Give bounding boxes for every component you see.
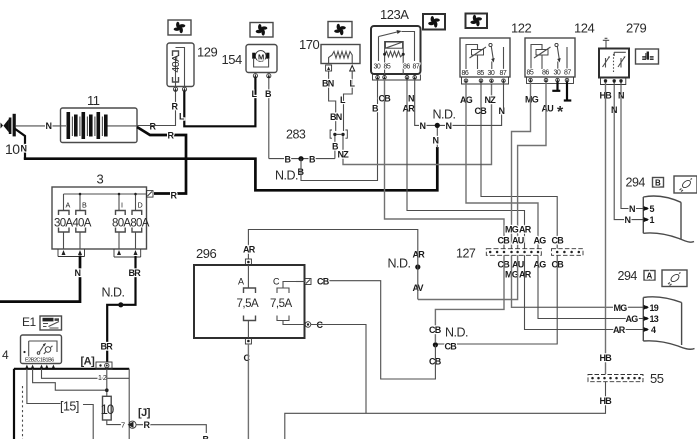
svg-text:N.D.: N.D. xyxy=(445,326,468,340)
svg-text:N: N xyxy=(408,94,414,104)
svg-text:86: 86 xyxy=(462,70,469,77)
svg-text:N: N xyxy=(629,204,635,214)
wire AG below 127 to 294A pin13 xyxy=(538,255,644,318)
wire N from 123A to N splice xyxy=(415,79,502,125)
ground under 124 pin87 xyxy=(564,82,572,101)
fan resistor 170 xyxy=(321,45,360,64)
svg-text:30: 30 xyxy=(374,64,381,71)
wire R from 129 to battery xyxy=(137,92,176,126)
svg-text:7,5A: 7,5A xyxy=(270,298,292,310)
connector strip 123A xyxy=(373,75,421,81)
electric fan 129 (fuse 40A) xyxy=(167,43,194,87)
svg-text:MG: MG xyxy=(614,303,628,313)
svg-text:296: 296 xyxy=(196,246,216,261)
connector pins below box 3 group 1 xyxy=(58,249,85,257)
svg-text:127: 127 xyxy=(456,247,476,261)
svg-text:30: 30 xyxy=(554,70,561,77)
svg-text:85: 85 xyxy=(477,70,484,77)
svg-text:[J]: [J] xyxy=(138,407,151,419)
svg-text:A: A xyxy=(238,277,244,287)
svg-text:123A: 123A xyxy=(380,7,409,22)
pin AR (296 top) xyxy=(245,259,251,265)
svg-text:HB: HB xyxy=(600,396,613,406)
svg-text:87: 87 xyxy=(413,64,420,71)
pins of 129 xyxy=(173,87,186,91)
fuse 80A a xyxy=(116,211,126,233)
control unit box edge right xyxy=(128,369,130,439)
svg-text:30: 30 xyxy=(488,70,495,77)
wire connector A to fuse 10 xyxy=(106,369,108,396)
svg-text:N.D.: N.D. xyxy=(102,286,125,300)
svg-text:87: 87 xyxy=(500,70,507,77)
pin 1 (294B) xyxy=(644,217,650,222)
wire HB from 279 to 55 xyxy=(605,83,607,375)
ground 10 xyxy=(1,114,16,137)
relay 123A xyxy=(371,26,421,75)
svg-text:N: N xyxy=(46,121,52,131)
svg-text:CB: CB xyxy=(552,260,565,270)
relay 124 xyxy=(525,38,575,77)
fuse 10 xyxy=(103,396,112,420)
splice N.D. (N) xyxy=(435,123,440,128)
fuse 30A xyxy=(59,211,70,233)
svg-text:10: 10 xyxy=(5,141,20,157)
svg-text:129: 129 xyxy=(197,45,217,60)
wire AR below 127 to 294A pin4 xyxy=(525,255,644,329)
svg-text:BN: BN xyxy=(322,79,334,89)
connector A xyxy=(96,362,112,369)
svg-text:AR: AR xyxy=(413,250,426,260)
svg-text:10: 10 xyxy=(100,402,113,417)
wire R from J xyxy=(136,425,206,433)
fuse C (296) xyxy=(277,282,305,325)
connector strip 127 right xyxy=(552,249,584,256)
svg-text:279: 279 xyxy=(626,21,646,36)
fuse A (296) xyxy=(244,265,256,338)
wire from 15 down xyxy=(83,405,93,439)
battery 11 xyxy=(61,108,138,143)
svg-text:CB: CB xyxy=(429,325,442,335)
splice N.D. (B) xyxy=(298,156,303,161)
connector strip 279 xyxy=(601,78,626,85)
pins of 170 xyxy=(326,65,355,71)
svg-text:283: 283 xyxy=(286,128,306,142)
svg-text:B: B xyxy=(655,179,661,188)
svg-text:AG: AG xyxy=(534,260,547,270)
fuse box 296 xyxy=(194,265,305,338)
svg-text:AU: AU xyxy=(512,236,524,246)
battery R feed thick wire to fusebox 3 xyxy=(137,127,186,194)
svg-text:A: A xyxy=(66,201,71,210)
svg-text:M: M xyxy=(258,52,264,61)
fan icon box (154) xyxy=(250,23,273,38)
svg-text:AR: AR xyxy=(519,270,532,280)
svg-text:MG: MG xyxy=(505,225,519,235)
wire AR splice to 296 xyxy=(248,230,417,300)
wire N from 279 to 294B pin5 xyxy=(621,83,644,209)
svg-text:30A40A: 30A40A xyxy=(54,218,92,230)
wire N from box3 (thick) xyxy=(0,256,80,302)
icon box (279 pressure icon) xyxy=(636,49,659,64)
svg-text:170: 170 xyxy=(299,37,319,52)
svg-text:[15]: [15] xyxy=(60,400,79,414)
svg-text:124: 124 xyxy=(574,21,594,36)
fan icon box (129) xyxy=(168,20,191,35)
wire pin3 to right edge xyxy=(42,369,130,379)
svg-text:154: 154 xyxy=(222,52,242,67)
connector strip 55 xyxy=(588,375,643,382)
wire CB from 123A to 127 xyxy=(385,79,505,249)
svg-text:CB: CB xyxy=(498,236,511,246)
wire AU from 124 to 127 xyxy=(518,83,546,249)
wire AG from 122 to 127 xyxy=(466,83,538,249)
svg-text:86: 86 xyxy=(403,64,410,71)
svg-text:7,5A: 7,5A xyxy=(237,298,259,310)
splice dot at fuse10 xyxy=(105,388,109,392)
wire B from 154 down to splice xyxy=(268,78,270,159)
svg-text:CB: CB xyxy=(552,236,565,246)
svg-text:N: N xyxy=(420,121,426,131)
pin C (296 bottom) xyxy=(245,338,251,344)
pin 13 (294A) xyxy=(644,316,650,321)
connector pins below box 3 group 2 xyxy=(114,249,141,257)
svg-text:4: 4 xyxy=(2,348,9,362)
wire fuse10 to J xyxy=(107,420,121,425)
connector strip 124 xyxy=(527,77,574,84)
fan icon box (170) xyxy=(328,22,352,38)
connector strip 122 xyxy=(462,77,509,84)
splice N.D. (BR) xyxy=(118,302,123,307)
icon box E1 (location icon) xyxy=(40,316,62,330)
wire N ground to battery xyxy=(16,125,61,127)
wire C from 296 right xyxy=(311,325,366,414)
svg-text:BR: BR xyxy=(129,268,142,278)
wire HB bottom run xyxy=(285,382,606,439)
wire MG from 124 to 127 xyxy=(512,83,531,249)
connector 294B xyxy=(643,196,694,242)
svg-text:55: 55 xyxy=(650,371,664,386)
svg-text:13: 13 xyxy=(650,314,659,324)
svg-text:N: N xyxy=(75,268,81,278)
fan icon box (123A) xyxy=(423,14,445,30)
wire B below 283 xyxy=(269,136,335,159)
main N bus thick wire xyxy=(24,147,438,190)
wire CB below 127 to CB splice xyxy=(435,255,504,342)
svg-text:E2B2C1B1B6: E2B2C1B1B6 xyxy=(25,358,54,364)
svg-text:E1: E1 xyxy=(22,315,37,329)
splice N.D. (AR/AV) xyxy=(415,264,420,269)
svg-text:AR: AR xyxy=(243,245,256,255)
connector 283 xyxy=(330,130,347,138)
svg-text:7: 7 xyxy=(121,421,125,430)
pin 19 (294A) xyxy=(644,305,650,310)
control unit box edge left xyxy=(13,369,15,439)
svg-text:N: N xyxy=(625,215,631,225)
wire CB from 122 to 127 xyxy=(481,83,557,249)
wire N from 122 to N splice xyxy=(503,83,505,112)
svg-text:BR: BR xyxy=(101,342,114,352)
svg-text:MG: MG xyxy=(525,95,539,105)
wire L from 129 to 154 xyxy=(184,92,255,127)
connector strip 127 left xyxy=(486,249,541,256)
svg-text:N.D.: N.D. xyxy=(275,169,298,183)
svg-text:HB: HB xyxy=(600,353,613,363)
svg-text:AR: AR xyxy=(519,225,532,235)
wire B stub 123A pin30 xyxy=(377,79,379,104)
fan icon box (122) xyxy=(466,14,488,29)
svg-text:294: 294 xyxy=(626,176,646,190)
wire N from 279 to 294B pin1 xyxy=(614,83,643,220)
svg-text:122: 122 xyxy=(511,21,531,36)
wire pin2 to fuse10 node xyxy=(33,369,107,390)
wire pin1 to connector 15 xyxy=(27,369,61,404)
svg-text:A: A xyxy=(647,272,653,281)
wire BN from 170 xyxy=(329,71,336,131)
svg-text:N: N xyxy=(446,121,452,131)
svg-text:BN: BN xyxy=(330,112,342,122)
svg-text:N.D.: N.D. xyxy=(388,257,411,271)
connector 294A xyxy=(643,297,694,350)
svg-text:N.D.: N.D. xyxy=(433,108,456,122)
ground under 124 pin30 xyxy=(552,82,560,91)
wire NZ from 283 to relay 122 xyxy=(343,85,492,165)
fuse box 3 xyxy=(52,187,147,249)
svg-text:NZ: NZ xyxy=(338,150,350,160)
svg-text:85: 85 xyxy=(527,70,534,77)
pin 5 (294B) xyxy=(644,206,650,211)
wire N thin above thick joint xyxy=(436,128,438,148)
wire L from 170 xyxy=(344,71,353,131)
plug icon box (294A) xyxy=(662,270,687,287)
svg-text:AG: AG xyxy=(534,236,547,246)
electric fan motor 154 xyxy=(246,45,277,73)
wire B splice to 123A pin30 xyxy=(301,112,378,181)
splice N.D. (CB) xyxy=(433,342,438,347)
svg-text:80A80A: 80A80A xyxy=(112,218,150,230)
svg-text:NZ: NZ xyxy=(485,95,497,105)
wire ground down to N bus (thick) xyxy=(15,129,26,159)
svg-text:AR: AR xyxy=(613,325,626,335)
pressure switch 279 xyxy=(599,49,629,78)
svg-text:D: D xyxy=(138,201,143,210)
wire AR from 123A to 127 xyxy=(407,79,525,249)
wire C from 296 bottom xyxy=(247,344,249,439)
wire AU below 127 to AV splice xyxy=(418,255,518,299)
plug icon box (294B) xyxy=(674,176,697,193)
fuse 80A b xyxy=(132,211,142,233)
relay 122 xyxy=(460,38,510,77)
fuse leads box3 xyxy=(64,232,136,249)
pin R of box 3 xyxy=(147,191,154,198)
pin 4 (294A) xyxy=(644,327,650,332)
svg-text:19: 19 xyxy=(650,303,659,313)
svg-text:86: 86 xyxy=(542,70,549,77)
svg-text:[A]: [A] xyxy=(81,356,96,368)
svg-text:B: B xyxy=(82,201,87,210)
svg-text:294: 294 xyxy=(618,269,638,283)
relay unit 4 (E1) xyxy=(21,335,62,364)
connector pins below unit 4 xyxy=(25,365,55,369)
connector J pin xyxy=(128,421,137,428)
svg-text:40A: 40A xyxy=(170,55,182,73)
wire L from 154 (thick, joins 129 L) xyxy=(254,78,256,96)
pin CB (296 right) xyxy=(296,279,311,285)
svg-text:85: 85 xyxy=(384,64,391,71)
probe symbol above 279 xyxy=(603,38,609,48)
svg-text:AG: AG xyxy=(626,314,639,324)
wire MG below 127 to 294A pin19 xyxy=(512,255,644,307)
svg-text:87: 87 xyxy=(564,70,571,77)
control unit box edge top xyxy=(14,368,129,370)
dashed wire inside unit xyxy=(22,386,24,439)
svg-text:N: N xyxy=(433,136,439,146)
svg-text:AR: AR xyxy=(403,104,416,114)
wire BR from box3 xyxy=(107,256,135,362)
svg-text:AU: AU xyxy=(542,104,554,114)
svg-text:1 2: 1 2 xyxy=(98,375,107,382)
wire CB splice to 296 xyxy=(329,281,435,379)
pin C (296 right low) xyxy=(305,322,311,328)
pins of 154 xyxy=(253,74,271,78)
svg-text:CB: CB xyxy=(317,277,330,287)
svg-text:3: 3 xyxy=(97,172,104,187)
fuse 40A xyxy=(76,211,86,233)
svg-text:N: N xyxy=(21,144,27,154)
wire CB right below 127 to CB splice xyxy=(437,255,557,344)
svg-text:CB: CB xyxy=(445,342,458,352)
svg-text:11: 11 xyxy=(87,93,100,108)
